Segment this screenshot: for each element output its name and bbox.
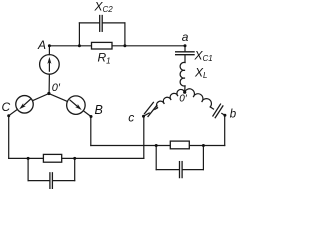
inductor phase c (left coil)	[157, 89, 185, 107]
svg-text:B: B	[95, 103, 103, 117]
source eC	[16, 96, 34, 114]
wire left-block cap loop left vertical	[27, 158, 29, 180]
wire XC1 to XL	[184, 55, 186, 63]
wire b vertical	[224, 115, 226, 145]
wire left-block cap loop bottom left	[28, 180, 49, 182]
wire neutral to source eB	[49, 94, 68, 102]
capacitor XC1	[176, 52, 194, 55]
node c	[142, 115, 145, 118]
svg-text:c: c	[128, 111, 134, 125]
svg-text:a: a	[182, 30, 189, 44]
node right-block left junction	[155, 144, 158, 147]
node junction loop left	[78, 44, 81, 47]
wire source eB to node B	[83, 111, 91, 117]
wire parallel loop top left segment	[79, 22, 99, 24]
resistor R1	[92, 42, 113, 49]
wire right-block cap loop left vertical	[155, 146, 157, 170]
wire right-block cap loop bottom left	[156, 169, 179, 171]
node right-block right junction	[202, 144, 205, 147]
wire source eC to node C	[9, 109, 18, 115]
svg-text:0′: 0′	[52, 82, 61, 94]
capacitor phase c	[145, 102, 157, 116]
node C	[7, 114, 10, 117]
svg-text:XC1: XC1	[194, 49, 213, 64]
svg-text:b: b	[230, 109, 237, 121]
capacitor bottom-left block	[50, 173, 53, 189]
wire right-block cap loop right vertical	[202, 146, 204, 170]
inductor XL	[180, 62, 185, 86]
node a	[184, 44, 187, 47]
wire right-block cap loop bottom right	[183, 169, 204, 171]
node left-block left junction	[27, 157, 30, 160]
capacitor phase b	[213, 104, 223, 118]
wire coil to right cap	[210, 107, 213, 109]
node B	[90, 115, 93, 118]
wire node a down to XC1	[184, 46, 186, 51]
capacitor XC2	[100, 16, 103, 32]
wire top main A to a	[49, 45, 185, 47]
wire parallel loop right vertical	[124, 23, 126, 46]
resistor bottom-left block	[43, 154, 61, 162]
wire left-block cap loop right vertical	[74, 158, 76, 180]
wire node c down	[143, 116, 145, 158]
capacitor bottom-right block	[180, 162, 183, 178]
wire neutral to source eC	[33, 94, 49, 101]
wire source eA to neutral 0'	[48, 74, 50, 93]
svg-text:XC2: XC2	[94, 0, 114, 14]
wire XL to load neutral	[184, 86, 186, 92]
node A	[48, 44, 51, 47]
wire right cap to node b	[222, 113, 225, 115]
wire coil to left cap	[155, 108, 158, 110]
svg-text:R1: R1	[98, 51, 111, 66]
node left-block right junction	[73, 157, 76, 160]
wire node C down	[8, 116, 10, 159]
wire parallel loop left vertical	[78, 23, 80, 46]
inductor phase b (right coil)	[185, 89, 212, 107]
node source neutral 0'	[47, 92, 50, 95]
wire bottom B horizontal to b corner	[91, 145, 225, 147]
svg-text:XL: XL	[194, 66, 207, 81]
node load neutral 0'	[183, 91, 186, 94]
svg-text:0′: 0′	[179, 94, 188, 105]
source eA	[40, 55, 60, 75]
svg-text:A: A	[37, 38, 46, 52]
wire bottom left horizontal	[9, 157, 144, 159]
svg-text:C: C	[2, 100, 11, 114]
wire left cap to node c	[144, 113, 150, 116]
wire node A down to source	[48, 46, 50, 55]
wire node B down	[90, 117, 92, 146]
wire left-block cap loop bottom right	[53, 180, 75, 182]
node b	[223, 114, 226, 117]
node junction loop right	[123, 44, 126, 47]
source eB	[67, 96, 86, 115]
resistor bottom-right block	[170, 141, 189, 149]
wire parallel loop top right segment	[103, 22, 125, 24]
